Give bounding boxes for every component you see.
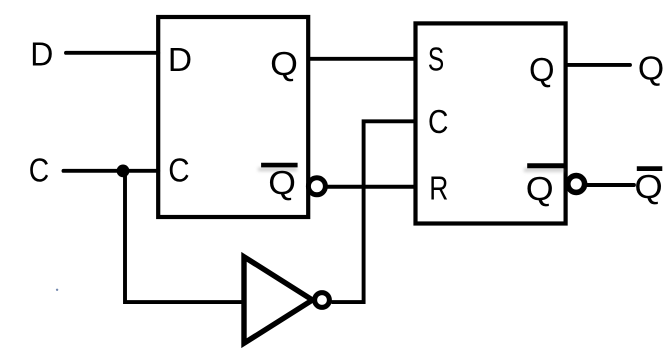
wire U1 pin Q to U2 pin S: [308, 57, 415, 61]
svg-text:Q: Q: [529, 51, 555, 88]
U1 Qbar output bubble: [308, 178, 325, 195]
svg-text:Q: Q: [268, 164, 296, 201]
wire inverter output right and up to U2 pin C elbow: [331, 121, 415, 302]
svg-text:Q: Q: [526, 170, 554, 207]
shadow smear under U1 Qbar overline: [258, 168, 297, 172]
wire D input to U1 pin D: [66, 51, 158, 55]
inverter U3 output bubble: [315, 293, 330, 308]
svg-text:C: C: [29, 151, 49, 188]
svg-text:Q: Q: [634, 168, 662, 205]
overline of output Qbar label: [637, 166, 663, 171]
overline of Qbar pin label U2: [527, 163, 565, 168]
svg-text:C: C: [168, 151, 189, 188]
wire C junction down and right to inverter input: [125, 171, 246, 302]
U2 Qbar output bubble: [568, 176, 585, 193]
svg-text:R: R: [429, 169, 448, 206]
shadow smear under U2 Qbar overline: [524, 168, 564, 172]
SR latch U2 body: [416, 23, 566, 223]
overline of Qbar pin label U1: [261, 163, 298, 168]
svg-text:Q: Q: [638, 49, 664, 86]
svg-text:D: D: [168, 41, 192, 78]
wire C input to U1 pin C: [64, 169, 159, 173]
wire U2 pin Qbar to output Qbar: [587, 183, 634, 187]
svg-text:S: S: [428, 41, 444, 78]
wire U1 pin Qbar to U2 pin R: [327, 185, 415, 189]
junction dot on net C: [117, 164, 130, 177]
svg-text:D: D: [30, 36, 53, 73]
stray blue speck artifact: [56, 289, 58, 291]
svg-text:C: C: [428, 103, 448, 140]
inverter U3 triangle: [244, 257, 312, 343]
D latch U1 body: [158, 17, 308, 217]
svg-text:Q: Q: [270, 45, 298, 82]
wire U2 pin Q to output Q: [566, 63, 630, 67]
